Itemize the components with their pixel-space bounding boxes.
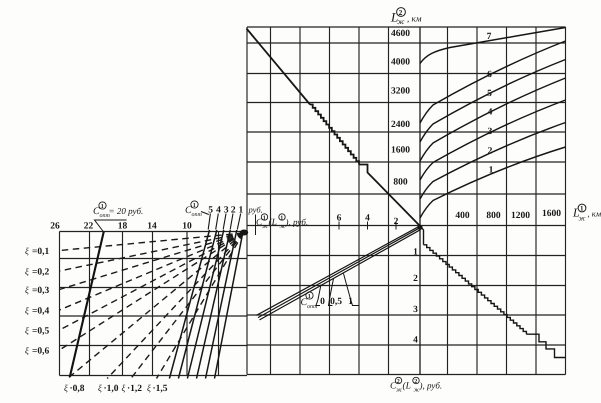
svg-text:(L: (L — [403, 382, 411, 392]
axis label L(2)zh km (top) — [390, 8, 422, 26]
svg-text:=0,4: =0,4 — [32, 307, 50, 317]
svg-text:0: 0 — [320, 297, 325, 307]
svg-text:3200: 3200 — [391, 86, 410, 96]
svg-text:ж: ж — [579, 214, 586, 223]
svg-text:ξ: ξ — [25, 306, 29, 316]
svg-text:), руб.: ), руб. — [419, 381, 443, 391]
svg-text:26: 26 — [50, 222, 60, 232]
svg-text:2: 2 — [397, 379, 400, 385]
dashed xi fan — [60, 233, 244, 379]
xi labels bottom — [64, 383, 168, 394]
svg-text:6: 6 — [337, 214, 342, 224]
svg-text:0,5: 0,5 — [330, 297, 342, 307]
main grid horizontals — [247, 27, 566, 375]
svg-text:, км: , км — [588, 209, 601, 219]
svg-text:ξ: ξ — [98, 383, 102, 393]
upper diagonal staircase — [247, 29, 421, 227]
svg-text:2: 2 — [488, 147, 493, 157]
svg-text:=0,3: =0,3 — [32, 286, 50, 296]
svg-text:ξ: ξ — [25, 267, 29, 277]
steep C-opt fan (6 lines) — [169, 230, 243, 379]
svg-text:2: 2 — [414, 379, 417, 385]
horizontal axis numerals left (C1 values 6 4 2) — [337, 214, 399, 228]
svg-text:1: 1 — [413, 248, 418, 258]
steep fan value numerals 5 4 3 2 1 rub — [208, 206, 243, 216]
svg-text:ξ: ξ — [64, 383, 68, 393]
svg-text:= 20 руб.: = 20 руб. — [109, 206, 144, 216]
lower staircase — [422, 228, 566, 358]
curve numerals 1-7 — [487, 32, 494, 176]
vertical axis of upper-right quadrant — [419, 27, 421, 375]
svg-text:5: 5 — [487, 89, 492, 99]
curve 6 — [420, 41, 566, 123]
axis label C1(L1) rub (centre) — [256, 214, 308, 230]
svg-text:), руб.: ), руб. — [285, 217, 309, 227]
svg-text:·1,2: ·1,2 — [127, 384, 142, 394]
svg-text:опт: опт — [192, 212, 203, 218]
svg-text:1: 1 — [239, 206, 244, 216]
svg-text:=0,2: =0,2 — [32, 268, 50, 278]
svg-text:2400: 2400 — [391, 120, 410, 130]
svg-text:ж: ж — [262, 223, 268, 230]
axis label L(1)zh km (right) — [572, 204, 601, 222]
vertical axis numerals (L2 values) — [391, 29, 410, 188]
svg-text:10: 10 — [182, 222, 192, 232]
axis label C2(L2) rub (bottom) — [390, 377, 442, 393]
band value leaders (0, 0.5, 1) — [316, 274, 360, 306]
svg-text:4600: 4600 — [391, 29, 410, 39]
svg-text:400: 400 — [455, 211, 470, 221]
svg-text:=0,5: =0,5 — [32, 327, 50, 337]
svg-text:4000: 4000 — [391, 57, 410, 67]
svg-text:опт: опт — [307, 304, 318, 310]
svg-text:4: 4 — [488, 108, 493, 118]
band values 0 0,5 1 — [320, 297, 353, 307]
svg-text:2: 2 — [399, 8, 403, 17]
svg-text:1: 1 — [263, 216, 266, 222]
svg-text:руб.: руб. — [248, 205, 263, 215]
svg-text:ж: ж — [397, 17, 405, 26]
svg-text:(L: (L — [269, 218, 277, 228]
curve 3 — [420, 100, 566, 180]
svg-text:1: 1 — [308, 294, 311, 300]
svg-text:ξ: ξ — [25, 346, 29, 356]
fan convergence node — [240, 230, 248, 236]
svg-text:3: 3 — [413, 305, 418, 315]
svg-text:7: 7 — [487, 32, 492, 42]
origin node — [417, 225, 422, 230]
svg-text:800: 800 — [393, 177, 408, 187]
svg-text:1600: 1600 — [542, 209, 561, 219]
svg-text:, км: , км — [407, 14, 422, 24]
svg-text:=0,6: =0,6 — [32, 347, 50, 357]
xi labels left — [25, 246, 50, 357]
svg-text:22: 22 — [84, 222, 94, 232]
svg-text:3: 3 — [224, 206, 229, 216]
left chart grid horizontals — [60, 232, 248, 376]
optimum band (3 parallel lines) — [257, 226, 421, 320]
svg-text:ξ: ξ — [25, 246, 29, 256]
svg-text:2: 2 — [394, 217, 399, 227]
svg-text:14: 14 — [147, 222, 157, 232]
svg-text:4: 4 — [216, 206, 221, 216]
svg-text:1: 1 — [280, 216, 283, 222]
svg-text:ξ: ξ — [122, 383, 126, 393]
curve 4 — [420, 78, 566, 161]
label C-opt(1) for steep fan — [185, 201, 203, 218]
horizontal axis numerals right (L1 values) — [455, 209, 561, 221]
svg-text:4: 4 — [413, 336, 418, 346]
svg-text:=0,1: =0,1 — [32, 247, 50, 257]
svg-text:18: 18 — [118, 222, 128, 232]
left chart top tick numerals 26 22 18 14 10 — [50, 222, 192, 232]
label C-opt(1) = 20 rub — [93, 202, 143, 219]
svg-text:ξ: ξ — [147, 383, 151, 393]
svg-text:1600: 1600 — [391, 145, 410, 155]
main grid verticals — [247, 27, 566, 375]
svg-text:ξ: ξ — [25, 285, 29, 295]
svg-text:5: 5 — [208, 206, 213, 216]
svg-text:·1,5: ·1,5 — [153, 384, 168, 394]
curve 1 — [420, 147, 566, 218]
label leaders for steep fan — [201, 212, 241, 230]
svg-text:·0,8: ·0,8 — [70, 384, 85, 394]
axis tick marks on centre row — [256, 215, 397, 236]
svg-text:1200: 1200 — [511, 211, 530, 221]
C-opt = 20 rub line (bold) — [70, 232, 104, 378]
curve 5 — [420, 60, 566, 143]
svg-text:1: 1 — [101, 204, 104, 210]
svg-text:2: 2 — [231, 206, 236, 216]
curve 2 — [420, 123, 566, 200]
svg-text:ж: ж — [396, 387, 402, 394]
vertical axis numerals below origin (C2 values 1-4) — [413, 248, 418, 346]
svg-text:3: 3 — [488, 127, 493, 137]
curve 7 — [420, 28, 566, 64]
svg-text:2: 2 — [413, 274, 418, 284]
svg-text:800: 800 — [486, 211, 501, 221]
svg-text:1: 1 — [348, 297, 353, 307]
label C-opt(1) near band — [301, 292, 319, 310]
svg-text:1: 1 — [193, 203, 196, 209]
svg-text:·1,0: ·1,0 — [104, 384, 119, 394]
svg-text:6: 6 — [487, 70, 492, 80]
svg-text:ξ: ξ — [25, 326, 29, 336]
label underline and leader for 20 rub — [95, 220, 127, 233]
svg-text:1: 1 — [489, 166, 494, 176]
left chart grid verticals — [60, 232, 219, 376]
svg-text:4: 4 — [365, 214, 370, 224]
svg-text:1: 1 — [580, 205, 584, 213]
